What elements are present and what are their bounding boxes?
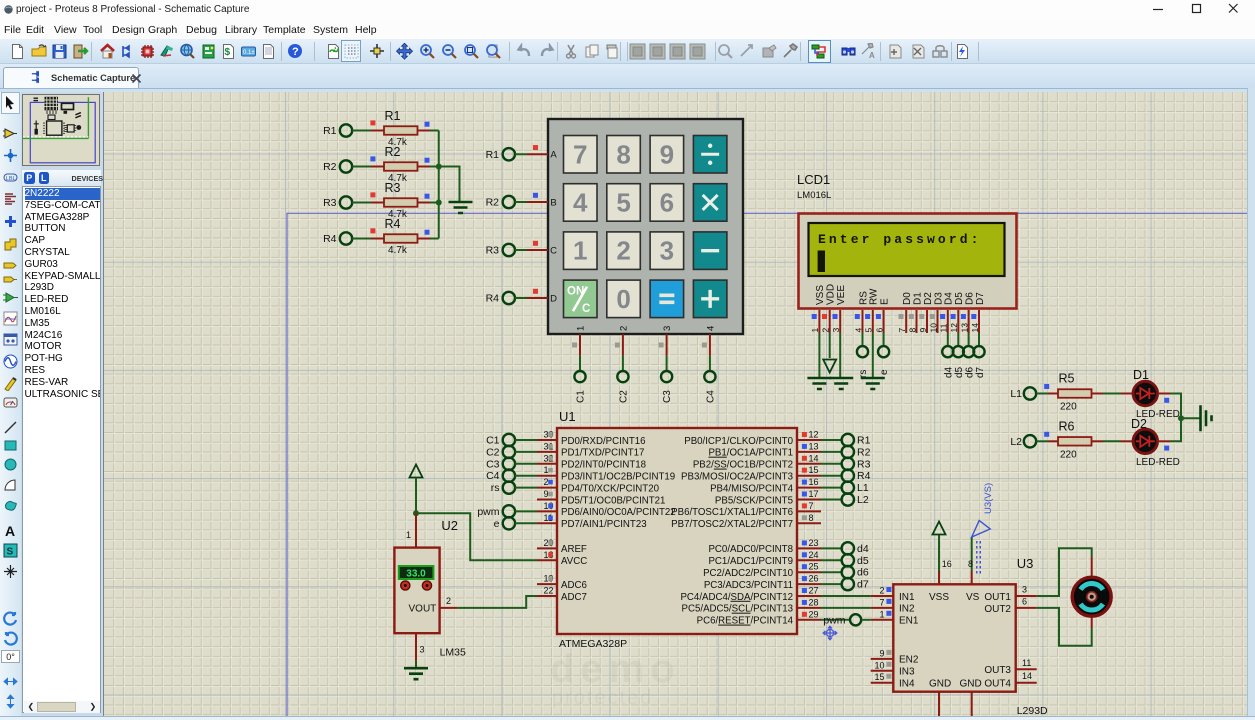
svg-text:PD6/AIN0/OC0A/PCINT22: PD6/AIN0/OC0A/PCINT22 xyxy=(561,507,676,518)
svg-text:PB5/SCK/PCINT5: PB5/SCK/PCINT5 xyxy=(715,495,793,506)
svg-text:U2: U2 xyxy=(441,518,458,533)
svg-text:C3: C3 xyxy=(662,390,673,403)
wire PC5 to U3 IN2 xyxy=(821,607,871,609)
svg-text:8: 8 xyxy=(907,328,917,333)
svg-text:PC5/ADC5/SCL/PCINT13: PC5/ADC5/SCL/PCINT13 xyxy=(682,604,793,615)
svg-text:U3: U3 xyxy=(1017,556,1034,571)
terminal pwm (U1 right) xyxy=(823,614,861,626)
terminal R4 (left bank) xyxy=(323,232,352,245)
svg-text:PD5/T1/OC0B/PCINT21: PD5/T1/OC0B/PCINT21 xyxy=(561,495,665,506)
svg-text:PD2/INT0/PCINT18: PD2/INT0/PCINT18 xyxy=(561,460,646,471)
wire LCD D4 xyxy=(947,333,949,346)
wire LCD VDD power xyxy=(829,333,831,358)
svg-text:0: 0 xyxy=(616,284,630,314)
svg-text:1: 1 xyxy=(810,328,820,333)
title bar xyxy=(0,0,1255,20)
svg-text:1: 1 xyxy=(573,236,587,266)
wire R3 terminal to resistor xyxy=(352,202,384,204)
svg-text:33.0: 33.0 xyxy=(406,569,426,580)
wire U1 to R2 xyxy=(821,451,842,453)
svg-text:3: 3 xyxy=(1022,585,1027,595)
svg-text:VS: VS xyxy=(966,592,980,603)
terminal d6 (U1 right) xyxy=(842,566,869,579)
svg-text:5: 5 xyxy=(864,328,874,333)
svg-text:8: 8 xyxy=(968,559,973,569)
U1 pin 2 (PD4) xyxy=(537,477,660,494)
terminal L1 xyxy=(1010,387,1036,400)
svg-text:PD4/T0/XCK/PCINT20: PD4/T0/XCK/PCINT20 xyxy=(561,483,660,494)
terminal pwm (U1 left) xyxy=(477,505,515,518)
svg-text:PB7/TOSC2/XTAL2/PCINT7: PB7/TOSC2/XTAL2/PCINT7 xyxy=(671,519,793,530)
ground (LCD VEE) xyxy=(829,378,853,389)
svg-text:3: 3 xyxy=(831,328,841,333)
wire junction to AVCC xyxy=(416,513,537,560)
svg-text:e: e xyxy=(494,518,500,530)
svg-text:PD7/AIN1/PCINT23: PD7/AIN1/PCINT23 xyxy=(561,519,647,530)
svg-text:R3: R3 xyxy=(486,245,500,257)
svg-text:C2: C2 xyxy=(618,390,629,403)
U1 pin 17 (PB5) xyxy=(715,489,821,506)
watermark xyxy=(550,647,681,709)
IC U3 L293D body xyxy=(893,584,1015,691)
resistor R2 4.7k xyxy=(370,145,429,184)
svg-text:IN3: IN3 xyxy=(899,667,915,678)
U2 pin 3 xyxy=(416,633,425,661)
wire LCD RW to ground xyxy=(872,333,874,378)
svg-text:LBL: LBL xyxy=(6,176,16,182)
wire keypad column 3 xyxy=(659,334,667,371)
svg-text:PC4/ADC4/SDA/PCINT12: PC4/ADC4/SDA/PCINT12 xyxy=(680,592,793,603)
U2 pin 2 xyxy=(440,596,458,608)
wire PC4 to U3 IN1 xyxy=(821,595,871,597)
svg-text:4: 4 xyxy=(573,187,588,217)
svg-text:14: 14 xyxy=(1022,671,1032,681)
junction U2/AVCC xyxy=(413,510,419,516)
wire keypad column 1 xyxy=(572,334,580,371)
svg-text:R4: R4 xyxy=(486,293,500,305)
terminal e xyxy=(878,346,890,375)
svg-text:rs: rs xyxy=(491,482,500,494)
svg-text:4: 4 xyxy=(853,328,863,333)
left tool strip xyxy=(0,92,21,720)
U1 pin 9 (PD5) xyxy=(537,489,665,506)
terminal R2 (U1 right) xyxy=(842,446,871,459)
U3 pin 11 (OUT3) xyxy=(1016,658,1037,670)
svg-text:11: 11 xyxy=(1022,658,1031,668)
svg-text:OUT4: OUT4 xyxy=(984,679,1011,690)
svg-text:$: $ xyxy=(225,47,231,58)
label LED-RED (D2) xyxy=(1136,457,1180,468)
svg-text:D2: D2 xyxy=(923,292,934,305)
keypad button 9 xyxy=(650,136,684,174)
ground (resistor bank) xyxy=(449,202,473,213)
wire keypad column 4 xyxy=(702,334,710,371)
svg-text:PB1/OC1A/PCINT1: PB1/OC1A/PCINT1 xyxy=(708,448,793,459)
LCD pin 7 (D0) xyxy=(897,310,907,333)
terminal R3 (left bank) xyxy=(323,196,352,209)
wire R2 terminal to resistor xyxy=(352,166,384,168)
ground (LCD VSS) xyxy=(807,378,831,389)
terminal R2 (keypad row B) xyxy=(486,196,515,209)
device list scrollbar xyxy=(24,701,100,713)
wire R2 to bus xyxy=(418,166,439,168)
LCD pin names xyxy=(815,284,986,305)
wire pwm terminal to U3 EN1 xyxy=(862,619,871,621)
svg-text:U3(VS): U3(VS) xyxy=(983,483,994,514)
major grid lines xyxy=(104,92,1247,716)
svg-text:8: 8 xyxy=(616,139,630,169)
LCD pin 5 (RW) xyxy=(864,310,874,333)
LCD1 LM016L body xyxy=(799,214,1017,309)
svg-text:pwm: pwm xyxy=(477,506,499,518)
U1 pin 20 (AREF) xyxy=(537,538,587,555)
svg-text:A: A xyxy=(869,51,875,60)
svg-text:3: 3 xyxy=(420,645,425,655)
svg-text:1: 1 xyxy=(576,326,587,331)
U1 pin 24 (PC1) xyxy=(708,550,821,567)
svg-text:Enter password:: Enter password: xyxy=(818,232,982,247)
svg-text:R4: R4 xyxy=(857,470,871,482)
toolbar xyxy=(0,39,1255,64)
terminal R3 (keypad row C) xyxy=(486,244,515,257)
svg-text:16: 16 xyxy=(809,477,819,487)
LCD pin 6 (E) xyxy=(874,310,884,333)
svg-text:16: 16 xyxy=(942,559,952,569)
device list xyxy=(22,186,101,713)
terminal R2 (left bank) xyxy=(323,160,352,173)
LCD1 label xyxy=(797,172,831,201)
svg-text:17: 17 xyxy=(809,489,819,499)
wire C4 to U1 xyxy=(515,475,537,477)
svg-text:1: 1 xyxy=(544,465,549,475)
svg-text:d7: d7 xyxy=(975,366,986,378)
svg-text:ADC6: ADC6 xyxy=(561,580,587,591)
U1 pin 15 (PB3) xyxy=(681,465,821,482)
svg-text:PD0/RXD/PCINT16: PD0/RXD/PCINT16 xyxy=(561,436,646,447)
wire LCD D5 xyxy=(957,333,959,346)
LCD pin 3 (VEE) xyxy=(831,310,841,333)
svg-text:R1: R1 xyxy=(857,435,871,447)
svg-text:C4: C4 xyxy=(705,390,716,403)
wire U1 to R3 xyxy=(821,463,842,465)
terminal L2 xyxy=(1010,435,1036,448)
ground (LCD RW) xyxy=(861,378,885,389)
wire R3 to bus xyxy=(418,202,439,204)
wire rs to U1 xyxy=(515,487,537,489)
svg-text:PC6/RESET/PCINT14: PC6/RESET/PCINT14 xyxy=(697,616,794,627)
wire power to U2 junction xyxy=(415,478,417,514)
wire OUT2 to motor xyxy=(1037,608,1092,646)
svg-text:?: ? xyxy=(292,46,299,58)
keypad button mul xyxy=(693,184,727,222)
sensor U2 LM35 body xyxy=(394,548,439,634)
svg-text:RW: RW xyxy=(869,288,880,305)
svg-text:C1: C1 xyxy=(576,390,587,403)
keypad button div xyxy=(693,136,727,174)
keypad button eq xyxy=(650,280,684,318)
svg-text:L1: L1 xyxy=(1010,388,1022,400)
terminal d6 xyxy=(963,346,975,378)
svg-text:6: 6 xyxy=(874,328,884,333)
svg-text:PC1/ADC1/PCINT9: PC1/ADC1/PCINT9 xyxy=(708,556,793,567)
resistor R1 4.7k xyxy=(370,109,429,148)
svg-text:AVCC: AVCC xyxy=(561,556,587,567)
motor xyxy=(1072,577,1111,616)
svg-text:VOUT: VOUT xyxy=(409,604,437,615)
LCD pin 2 (VDD) xyxy=(821,310,831,333)
svg-text:C: C xyxy=(582,303,590,315)
wire U1 to d7 xyxy=(821,583,842,585)
svg-text:15: 15 xyxy=(809,465,819,475)
U2 display 33.0 xyxy=(399,566,434,580)
svg-text:26: 26 xyxy=(809,574,819,584)
ground (U2) xyxy=(404,668,428,679)
svg-text:4.7k: 4.7k xyxy=(388,245,408,256)
svg-text:0.1±: 0.1± xyxy=(243,50,255,56)
U3 pin 7 (IN2) xyxy=(871,597,915,614)
U3 GND pin stubs xyxy=(939,692,972,716)
svg-text:3: 3 xyxy=(662,326,673,331)
top canvas strip xyxy=(0,88,1255,92)
LCD pin 8 (D1) xyxy=(907,310,917,333)
svg-text:D: D xyxy=(550,294,557,305)
svg-text:14: 14 xyxy=(970,323,980,333)
keypad button 3 xyxy=(650,232,684,270)
LCD pin 11 (D4) xyxy=(939,310,949,333)
svg-text:R2: R2 xyxy=(486,197,500,209)
svg-text:EN1: EN1 xyxy=(899,616,919,627)
keypad button 4 xyxy=(564,184,598,222)
keypad button 7 xyxy=(564,136,598,174)
svg-text:R5: R5 xyxy=(1059,372,1075,386)
U1 pin 25 (PC2) xyxy=(703,562,821,579)
voltage probe U3(VS) xyxy=(972,483,994,574)
terminal d5 xyxy=(953,346,965,378)
svg-text:PD1/TXD/PCINT17: PD1/TXD/PCINT17 xyxy=(561,448,644,459)
svg-text:R1: R1 xyxy=(385,109,401,123)
U1 part name xyxy=(559,638,627,650)
keypad button 8 xyxy=(607,136,641,174)
U1 pin 7 (PB6) xyxy=(671,501,821,518)
canvas xyxy=(104,92,1247,716)
terminal d4 xyxy=(942,346,954,378)
U3 part name L293D xyxy=(1017,705,1048,717)
U3 label xyxy=(1017,556,1034,571)
svg-text:25: 25 xyxy=(809,562,819,572)
terminal e (U1 left) xyxy=(494,517,515,530)
junction D1/D2 xyxy=(1178,415,1184,421)
svg-text:10: 10 xyxy=(874,660,884,670)
terminal C3 xyxy=(661,371,673,403)
U2 part name LM35 xyxy=(440,647,466,659)
terminal C3 (U1 left) xyxy=(486,458,515,471)
svg-text:9: 9 xyxy=(544,489,549,499)
power symbol +V (U3 VSS) xyxy=(933,522,946,535)
keypad button minus xyxy=(693,232,727,270)
svg-text:2: 2 xyxy=(821,328,831,333)
LCD pin 9 (D2) xyxy=(918,310,928,333)
U1 pin 29 (PC6) xyxy=(697,609,821,626)
svg-text:1: 1 xyxy=(406,530,411,540)
svg-text:27: 27 xyxy=(809,586,819,596)
terminal d7 (U1 right) xyxy=(842,578,869,591)
wire e to U1 xyxy=(515,522,537,524)
svg-text:R1: R1 xyxy=(486,149,500,161)
svg-text:OUT1: OUT1 xyxy=(984,592,1011,603)
LED D2 LED-RED xyxy=(1133,429,1169,453)
svg-text:9: 9 xyxy=(918,328,928,333)
svg-text:5: 5 xyxy=(616,187,630,217)
svg-text:LCD1: LCD1 xyxy=(797,172,830,187)
svg-text:d6: d6 xyxy=(964,366,975,378)
U3 pin 15 (IN4) xyxy=(871,672,915,689)
wire R1 terminal to resistor xyxy=(352,130,384,132)
U3 pin 14 (OUT4) xyxy=(1016,671,1037,683)
wire U1 to R4 xyxy=(821,475,842,477)
svg-text:11: 11 xyxy=(939,323,949,332)
keypad row labels A-D xyxy=(550,150,557,305)
terminal C2 (U1 left) xyxy=(486,446,515,459)
svg-text:VDD: VDD xyxy=(826,284,837,305)
svg-text:R2: R2 xyxy=(385,145,401,159)
svg-text:2: 2 xyxy=(618,326,629,331)
U3 OUT labels xyxy=(984,592,1011,690)
U1 pin 12 (PB0) xyxy=(684,430,821,447)
svg-text:AREF: AREF xyxy=(561,544,587,555)
wire U1 to L1 xyxy=(821,487,842,489)
U3 pin 10 (IN3) xyxy=(871,660,915,677)
svg-text:9: 9 xyxy=(660,139,674,169)
LCD pin 13 (D6) xyxy=(959,310,969,333)
svg-text:LED-RED: LED-RED xyxy=(1136,457,1180,468)
wire U1 to d5 xyxy=(821,559,842,561)
keypad button 0 xyxy=(607,280,641,318)
U3 pin 3 (OUT1) xyxy=(1016,585,1037,597)
svg-text:PC2/ADC2/PCINT10: PC2/ADC2/PCINT10 xyxy=(703,568,794,579)
keypad button 5 xyxy=(607,184,641,222)
wire U1 to R1 xyxy=(821,439,842,441)
svg-text:9: 9 xyxy=(879,648,884,658)
svg-text:PC0/ADC0/PCINT8: PC0/ADC0/PCINT8 xyxy=(708,544,793,555)
wire LCD D6 xyxy=(968,333,970,346)
wire R4 terminal to resistor xyxy=(352,238,384,240)
keypad button plus xyxy=(693,280,727,318)
U1 pin 23 (PC0) xyxy=(708,538,821,555)
svg-text:B: B xyxy=(550,198,556,209)
keypad button 1 xyxy=(564,232,598,270)
svg-text:PB2/SS/OC1B/PCINT2: PB2/SS/OC1B/PCINT2 xyxy=(693,460,793,471)
wire LCD E xyxy=(883,333,885,346)
svg-text:ADC7: ADC7 xyxy=(561,592,587,603)
U3 pin 9 (EN2) xyxy=(871,648,919,665)
wire U2 VOUT to ADC7 xyxy=(458,596,537,608)
U1 pin 8 (PB7) xyxy=(671,513,821,530)
svg-text:R4: R4 xyxy=(323,233,337,245)
wire U1 to d6 xyxy=(821,571,842,573)
LCD pin 14 (D7) xyxy=(970,310,980,333)
svg-text:24: 24 xyxy=(809,550,819,560)
bottom strip xyxy=(0,716,1255,720)
svg-text:LM35: LM35 xyxy=(440,647,466,659)
U1 pin 22 (ADC7) xyxy=(537,586,587,603)
svg-text:E: E xyxy=(879,298,890,305)
svg-text:OUT3: OUT3 xyxy=(984,665,1011,676)
svg-text:PB6/TOSC1/XTAL1/PCINT6: PB6/TOSC1/XTAL1/PCINT6 xyxy=(671,507,793,518)
svg-text:d7: d7 xyxy=(857,579,869,591)
keypad KEYPAD-SMALLCALC body xyxy=(548,119,743,334)
wire LCD D7 xyxy=(978,333,980,346)
keypad button 2 xyxy=(607,232,641,270)
terminal R4 (U1 right) xyxy=(842,470,871,483)
wire U1 to d4 xyxy=(821,547,842,549)
svg-text:28: 28 xyxy=(809,597,819,607)
U2 label xyxy=(441,518,458,533)
U2 knobs xyxy=(401,581,432,590)
tab bar xyxy=(0,64,1255,88)
power symbol VDD (down arrow) xyxy=(823,360,836,373)
terminal d7 xyxy=(973,346,985,378)
terminal C1 (U1 left) xyxy=(486,434,515,447)
wire C1 to U1 xyxy=(515,439,537,441)
wire LCD VSS to ground xyxy=(818,333,820,378)
wire keypad column 2 xyxy=(615,334,623,371)
junction bus/R3 xyxy=(436,200,442,206)
U3 pin 8 (VS) xyxy=(968,537,973,584)
svg-text:R2: R2 xyxy=(323,161,337,173)
U3 pin 16 (VSS) xyxy=(939,535,952,585)
svg-text:220: 220 xyxy=(1060,402,1077,413)
resistor R6 220 xyxy=(1058,419,1092,460)
wire pwm to U1 xyxy=(515,510,537,512)
terminal C1 xyxy=(574,371,586,403)
terminal R1 (keypad row A) xyxy=(486,148,515,161)
svg-text:e: e xyxy=(879,369,890,375)
wire vertical bus xyxy=(438,131,440,239)
svg-text:10: 10 xyxy=(928,323,938,333)
svg-text:VEE: VEE xyxy=(836,285,847,305)
left panel xyxy=(21,92,104,720)
U1 pin 11 (PD7) xyxy=(537,513,647,530)
U3 inside labels VSS VS GND GND xyxy=(929,592,982,690)
svg-text:220: 220 xyxy=(1060,449,1077,460)
svg-text:d6: d6 xyxy=(857,567,869,579)
svg-text:2: 2 xyxy=(879,586,884,596)
terminal d4 (U1 right) xyxy=(842,542,869,555)
wire keypad row A xyxy=(515,145,548,154)
svg-text:13: 13 xyxy=(959,323,969,333)
svg-text:C4: C4 xyxy=(486,470,500,482)
svg-text:d5: d5 xyxy=(857,555,869,567)
terminal R3 (U1 right) xyxy=(842,458,871,471)
wire OUT1 to motor xyxy=(1037,548,1092,596)
keypad column pin numbers 1-4 xyxy=(576,326,717,331)
svg-text:12: 12 xyxy=(809,430,819,440)
resistor R5 220 xyxy=(1058,372,1092,413)
svg-text:L2: L2 xyxy=(857,494,869,506)
resistor R3 4.7k xyxy=(370,181,429,220)
wire keypad row C xyxy=(515,241,548,250)
keypad button ON/C xyxy=(564,280,598,318)
U2 VOUT label xyxy=(409,604,437,615)
terminal R1 (left bank) xyxy=(323,124,352,137)
svg-text:IN4: IN4 xyxy=(899,679,915,690)
svg-text:PB4/MISO/PCINT4: PB4/MISO/PCINT4 xyxy=(710,483,794,494)
overview minimap xyxy=(22,94,100,166)
LCD text Enter password: xyxy=(818,232,982,247)
label D2 xyxy=(1131,417,1147,431)
svg-text:GND: GND xyxy=(929,679,951,690)
svg-text:R3: R3 xyxy=(385,181,401,195)
